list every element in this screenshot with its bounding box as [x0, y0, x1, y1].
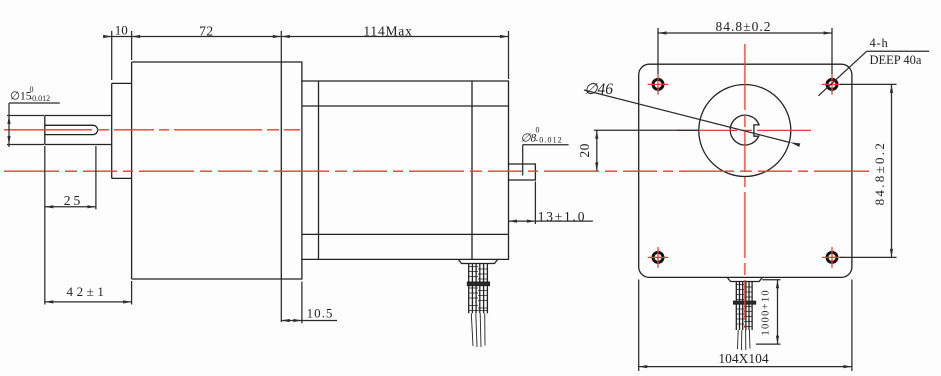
arrows 1000 [776, 280, 779, 289]
bolt hole top-left [653, 79, 663, 89]
motor body outline [302, 81, 509, 259]
D15 dim line [8, 103, 10, 147]
right 84.8 ext lines [840, 84, 897, 257]
20 ext line top [594, 129, 699, 131]
hole crosshair top-right [822, 74, 843, 95]
arrows 10.5 [281, 319, 290, 322]
svg-text:1000+10: 1000+10 [761, 289, 772, 336]
svg-text:114Max: 114Max [363, 24, 412, 39]
D8 label leader [523, 145, 569, 176]
svg-text:-0.012: -0.012 [30, 94, 51, 103]
ext line joint [280, 31, 282, 62]
svg-text:∅8: ∅8 [521, 133, 537, 145]
gearbox/motor joint line [280, 62, 282, 279]
shaft circle with keyway notch [730, 115, 759, 145]
svg-text:84.8±0.2: 84.8±0.2 [872, 141, 887, 206]
right 84.8 dim line [891, 84, 893, 257]
10.5 ext lines [281, 279, 302, 323]
ext line gearbox front [131, 31, 133, 60]
left loose wires [471, 313, 485, 347]
svg-text:10.5: 10.5 [307, 306, 334, 321]
plate vertical centerline [744, 44, 746, 328]
svg-text:DEEP 40a: DEEP 40a [870, 53, 922, 67]
1000 ext lines [756, 280, 781, 344]
svg-text:10: 10 [115, 23, 128, 38]
shaft tip ext line [44, 146, 46, 305]
svg-text:∅15: ∅15 [10, 91, 32, 103]
arrows 25 [45, 205, 54, 208]
svg-text:72: 72 [199, 24, 214, 39]
13 dim line [509, 220, 593, 222]
svg-text:13±1.0: 13±1.0 [538, 209, 587, 224]
svg-text:104X104: 104X104 [718, 351, 768, 366]
pilot boss D46x10 [112, 83, 132, 178]
left cable strain relief bump [458, 259, 497, 263]
right cable bundle [736, 282, 752, 331]
output shaft centerline (left view) [4, 129, 300, 131]
left cable bundle [469, 264, 488, 314]
25 dim line [45, 206, 96, 208]
D46 leader [584, 90, 790, 143]
104 ext lines [639, 280, 852, 372]
right cable strain relief bump [727, 278, 762, 282]
arrows 42 [45, 300, 54, 303]
gearbox body 72 [132, 62, 302, 279]
svg-text:0: 0 [30, 85, 34, 94]
arrows 104 [639, 365, 648, 368]
top dimension line 10/72/114Max [103, 36, 509, 38]
right loose wires [738, 330, 751, 350]
bolt hole top-right [827, 79, 837, 89]
hole crosshair top-left [648, 74, 669, 95]
svg-text:∅46: ∅46 [584, 81, 613, 98]
svg-text:20: 20 [577, 143, 592, 158]
arrows 13 [509, 220, 518, 223]
keyway slot on shaft [45, 125, 98, 134]
arrows top 84.8 [658, 31, 667, 34]
motor corner silhouette lines [302, 106, 509, 234]
13 ext line [534, 182, 536, 225]
svg-text:84.8±0.2: 84.8±0.2 [716, 19, 772, 34]
hole crosshair bottom-left [648, 247, 669, 268]
arrow D46 leader [790, 142, 800, 147]
left cable collar [468, 282, 490, 285]
svg-text:42±1: 42±1 [66, 284, 107, 299]
pilot boss circle D46 [699, 85, 791, 177]
bolt hole bottom-left [653, 252, 663, 262]
svg-text:4-h: 4-h [870, 36, 889, 50]
svg-text:0: 0 [536, 126, 540, 135]
top 84.8 dim line [658, 32, 832, 34]
104 dim line [639, 366, 852, 368]
arrows D15 [7, 116, 10, 125]
arrows top dims [103, 35, 112, 38]
25 ext line right [95, 146, 97, 210]
arrows 20 [595, 130, 598, 139]
ext line motor end [508, 31, 510, 79]
motor centerline (both views) [4, 170, 871, 172]
svg-text:-0.012: -0.012 [536, 136, 563, 145]
1000 dim line [777, 280, 779, 344]
right cable collar [734, 301, 756, 304]
mounting plate 104x104 [639, 64, 852, 277]
circle horizontal centerline (right view) [677, 129, 811, 131]
hole crosshair bottom-right [822, 247, 843, 268]
ext line boss front [111, 31, 113, 80]
D15 text underline [9, 102, 60, 104]
top 84.8 ext lines [658, 28, 832, 74]
svg-text:25: 25 [64, 193, 84, 208]
20 dim line [596, 130, 598, 171]
shaft (output, D15) [45, 116, 112, 145]
bolt hole bottom-right [827, 252, 837, 262]
4-h leader [818, 51, 929, 96]
42 dim line [45, 301, 132, 303]
42 ext line right [131, 281, 133, 305]
D15 ext lines [7, 116, 44, 145]
10.5 dim line [281, 320, 337, 322]
arrows right 84.8 [890, 84, 893, 93]
motor end cap lines [319, 81, 473, 259]
rear shaft D8 [509, 164, 536, 180]
